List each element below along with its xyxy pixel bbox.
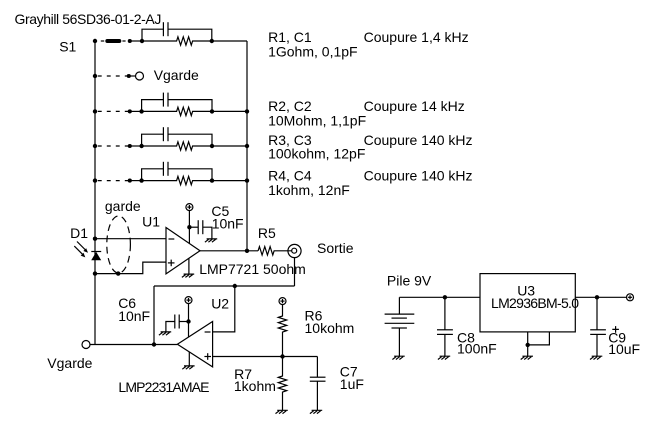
node R2 right bbox=[210, 109, 214, 113]
svg-text:Coupure 14 kHz: Coupure 14 kHz bbox=[364, 98, 465, 114]
wire U3 output bbox=[575, 296, 626, 298]
wire to U2 minus input bbox=[213, 286, 235, 332]
wire row3 to right bus bbox=[212, 110, 247, 112]
ground C5 bbox=[205, 239, 217, 242]
ground C7 bbox=[310, 410, 322, 413]
wire supply to U2 bbox=[188, 303, 190, 336]
wire U1 output bbox=[200, 250, 258, 252]
terminal Vgarde circle bbox=[136, 72, 144, 80]
svg-text:Coupure 140 kHz: Coupure 140 kHz bbox=[364, 132, 473, 148]
wire contact1 to node bbox=[130, 40, 142, 42]
wire contact2 to terminal bbox=[129, 75, 136, 77]
guard ring dashed ellipse bbox=[107, 216, 131, 273]
svg-text:Coupure 1,4 kHz: Coupure 1,4 kHz bbox=[364, 29, 469, 45]
supply V+ R6 bbox=[279, 298, 286, 305]
U1 plus sign bbox=[168, 262, 175, 264]
junction bus to -input bbox=[93, 237, 97, 241]
junction bus row3 bbox=[93, 109, 97, 113]
node switch contact 4 bbox=[128, 144, 132, 148]
svg-text:10nF: 10nF bbox=[212, 215, 244, 231]
wire U2 output bbox=[90, 344, 177, 346]
wire -input U1 bbox=[95, 238, 166, 240]
capacitor C5 bbox=[189, 226, 198, 228]
U2 minus sign bbox=[205, 331, 211, 333]
capacitor C8 bbox=[444, 297, 446, 330]
svg-text:Vgarde: Vgarde bbox=[154, 67, 199, 83]
svg-text:1uF: 1uF bbox=[340, 376, 364, 392]
node R2 left bbox=[139, 109, 143, 113]
svg-text:10kohm: 10kohm bbox=[305, 320, 355, 336]
junction R6 R7 node bbox=[280, 354, 284, 358]
switch S1 pole 1 dashed right bbox=[122, 40, 125, 42]
supply V+ U1 bbox=[186, 204, 193, 211]
connector Sortie bbox=[288, 244, 301, 257]
label C9 plus bbox=[612, 326, 619, 333]
node R1 right bbox=[210, 39, 214, 43]
resistor R1 bbox=[142, 37, 212, 45]
ground U1 bbox=[188, 258, 190, 274]
svg-text:U1: U1 bbox=[142, 213, 160, 229]
wire row5 to right bus bbox=[212, 180, 247, 182]
resistor R5 bbox=[258, 247, 292, 255]
ground U2 bbox=[188, 352, 190, 366]
supply V+ output bbox=[627, 294, 634, 301]
switch S1 pole 2 dashed (Vgarde) bbox=[98, 75, 127, 77]
terminal Vgarde bottom bbox=[82, 341, 90, 349]
node R4 right bbox=[210, 178, 214, 182]
svg-text:10uF: 10uF bbox=[608, 341, 640, 357]
node switch contact 5 bbox=[128, 179, 132, 183]
junction bus row4 bbox=[93, 144, 97, 148]
svg-text:100kohm, 12pF: 100kohm, 12pF bbox=[268, 146, 365, 162]
resistor R3 bbox=[142, 142, 212, 150]
junction C8 bbox=[443, 295, 447, 299]
resistor R7 bbox=[278, 357, 286, 411]
wire feedback horizontal bbox=[154, 285, 295, 287]
svg-text:Grayhill 56SD36-01-2-AJ: Grayhill 56SD36-01-2-AJ bbox=[15, 11, 161, 27]
junction bus row2 bbox=[93, 74, 97, 78]
ground C9 bbox=[590, 356, 602, 359]
svg-text:Coupure 140 kHz: Coupure 140 kHz bbox=[364, 168, 473, 184]
regulator U3 box bbox=[480, 274, 575, 332]
op-amp U2 bbox=[177, 322, 212, 367]
svg-text:D1: D1 bbox=[70, 225, 88, 241]
node switch contact 2 bbox=[127, 74, 131, 78]
wire contact4 to node bbox=[130, 145, 142, 147]
wire supply to U1 bbox=[188, 210, 190, 243]
wire left bus vertical bbox=[94, 41, 96, 345]
wire +input U1 bbox=[95, 262, 166, 274]
U2 plus sign bbox=[204, 356, 211, 358]
svg-text:1kohm, 12nF: 1kohm, 12nF bbox=[268, 182, 350, 198]
svg-text:Sortie: Sortie bbox=[317, 240, 354, 256]
junction C9 bbox=[595, 295, 599, 299]
wire row1 to right bus bbox=[212, 40, 247, 42]
junction C6 tee bbox=[186, 319, 190, 323]
light arrow 2 bbox=[74, 246, 83, 255]
node R3 right bbox=[210, 144, 214, 148]
wire contact5 to node bbox=[130, 180, 142, 182]
wire contact3 to node bbox=[130, 110, 142, 112]
svg-text:1kohm: 1kohm bbox=[234, 378, 276, 394]
capacitor C6 bbox=[179, 321, 188, 323]
resistor R2 bbox=[142, 107, 212, 115]
resistor R4 bbox=[142, 176, 212, 184]
capacitor C2 branch bbox=[142, 100, 212, 112]
capacitor C4 branch bbox=[142, 169, 212, 181]
switch S1 pole 1 dashed bbox=[101, 40, 104, 42]
capacitor C1 branch bbox=[142, 29, 212, 41]
op-amp U1 bbox=[166, 228, 200, 274]
U1 minus sign bbox=[169, 238, 175, 240]
capacitor C3 branch bbox=[142, 134, 212, 146]
junction U2 output tee bbox=[152, 342, 156, 346]
capacitor C7 bbox=[316, 357, 318, 411]
resistor R6 bbox=[278, 304, 286, 356]
ground battery bbox=[392, 356, 404, 359]
node switch contact 3 bbox=[128, 109, 132, 113]
switch S1 pole 3 dashed bbox=[98, 110, 128, 112]
switch S1 pole 5 dashed bbox=[98, 180, 128, 182]
ground U3 bbox=[521, 356, 533, 359]
junction right bus row5 bbox=[245, 178, 249, 182]
ground C8 bbox=[438, 356, 450, 359]
svg-text:S1: S1 bbox=[59, 39, 76, 55]
junction right bus row3 bbox=[245, 109, 249, 113]
node switch contact 1 bbox=[128, 39, 132, 43]
svg-text:10Mohm, 1,1pF: 10Mohm, 1,1pF bbox=[268, 113, 366, 129]
node R4 left bbox=[139, 178, 143, 182]
svg-text:Pile 9V: Pile 9V bbox=[387, 273, 432, 289]
battery 9V bbox=[398, 297, 400, 314]
svg-text:R5: R5 bbox=[258, 225, 276, 241]
switch S1 wiper bar bbox=[107, 39, 119, 43]
svg-text:garde: garde bbox=[105, 198, 141, 214]
switch S1 pole 4 dashed bbox=[98, 145, 128, 147]
svg-text:LM2936BM-5.0: LM2936BM-5.0 bbox=[491, 295, 579, 311]
supply V+ U2 bbox=[185, 297, 192, 304]
ground R7 bbox=[276, 410, 288, 413]
junction right bus output bbox=[245, 249, 249, 253]
wire battery to U3 bbox=[399, 296, 480, 298]
wire feedback vertical bbox=[153, 286, 155, 345]
svg-text:LMP7721 50ohm: LMP7721 50ohm bbox=[199, 261, 306, 277]
junction right bus row4 bbox=[245, 144, 249, 148]
junction guard to +input wire bbox=[116, 271, 120, 275]
U3 ground tab bbox=[528, 332, 550, 345]
photodiode D1 bbox=[91, 251, 101, 253]
wire tab to ground bbox=[527, 345, 529, 356]
junction bus row5 bbox=[93, 178, 97, 182]
node R1 left bbox=[140, 39, 144, 43]
svg-text:10nF: 10nF bbox=[118, 308, 150, 324]
wire right bus vertical bbox=[246, 41, 248, 251]
junction feedback tee bbox=[233, 284, 237, 288]
svg-text:Vgarde: Vgarde bbox=[47, 355, 92, 371]
light arrow 1 bbox=[77, 242, 86, 251]
wire U2 plus input bbox=[213, 356, 318, 358]
svg-text:LMP2231AMAE: LMP2231AMAE bbox=[118, 379, 209, 395]
node R3 left bbox=[139, 144, 143, 148]
junction U3 tab bbox=[526, 343, 530, 347]
svg-text:R1, C1: R1, C1 bbox=[268, 29, 312, 45]
svg-text:1Gohm, 0,1pF: 1Gohm, 0,1pF bbox=[268, 44, 358, 60]
ground C6 bbox=[159, 332, 171, 335]
svg-text:U2: U2 bbox=[211, 296, 229, 312]
junction C5 tee bbox=[187, 225, 191, 229]
svg-text:100nF: 100nF bbox=[457, 341, 497, 357]
wire Sortie down bbox=[294, 258, 296, 286]
capacitor C9 bbox=[596, 297, 598, 330]
junction bus to +input bbox=[93, 271, 97, 275]
junction bus row1 bbox=[93, 39, 97, 43]
wire row4 to right bus bbox=[212, 145, 247, 147]
